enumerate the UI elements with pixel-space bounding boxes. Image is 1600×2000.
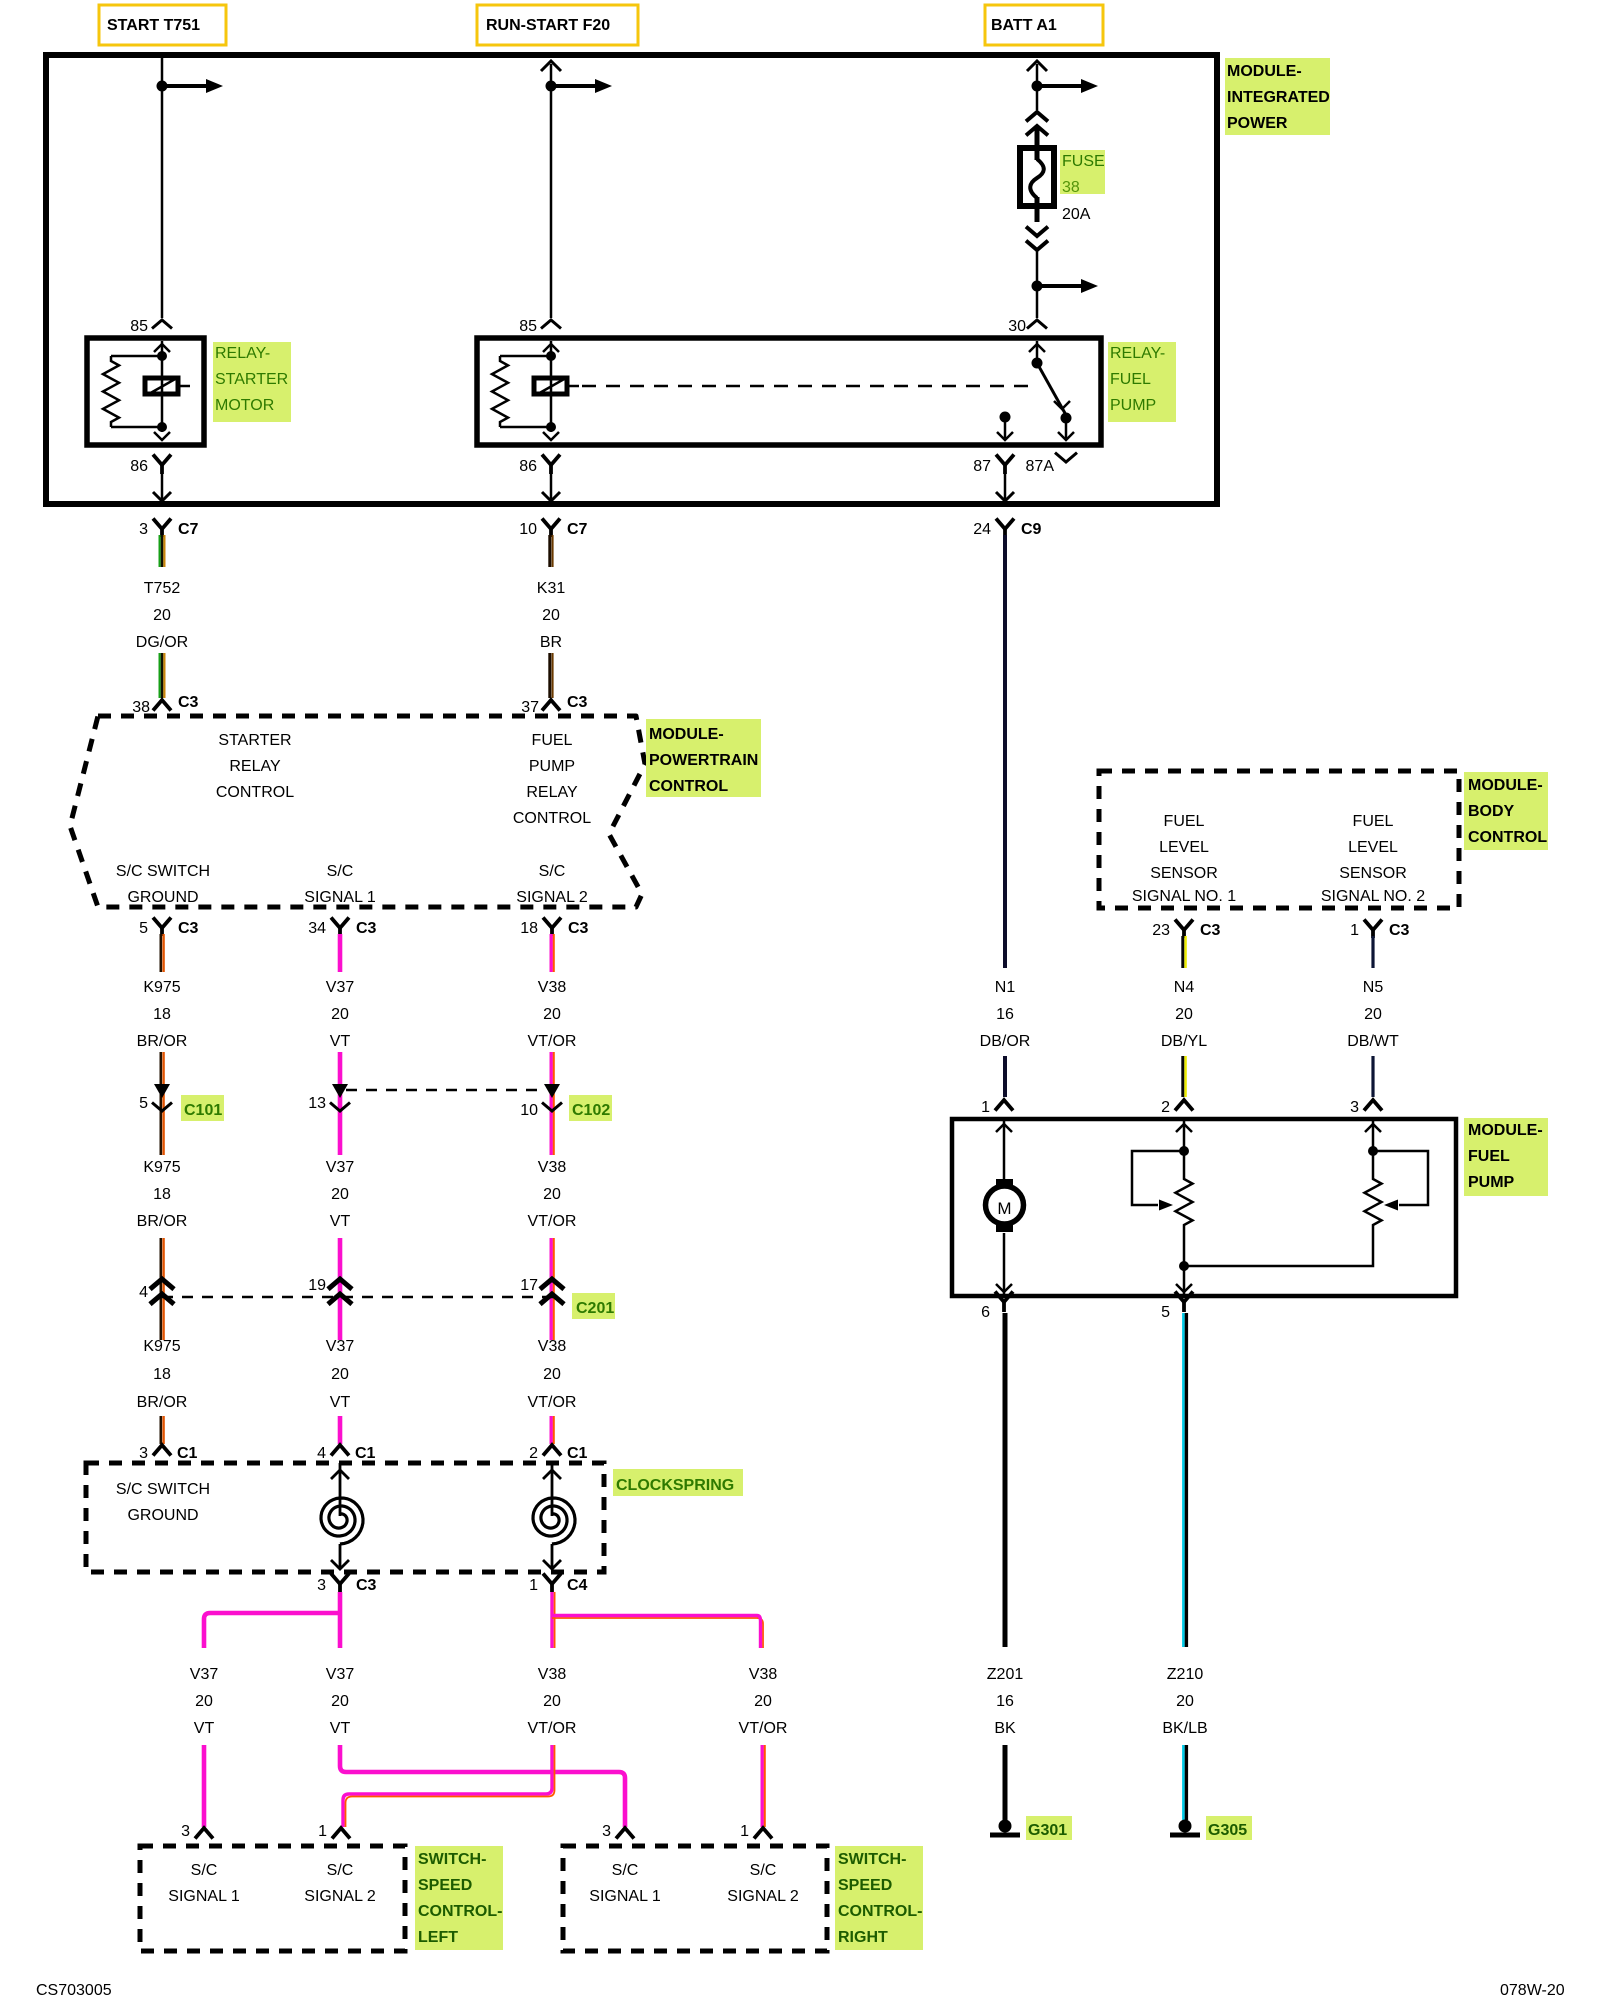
inline connector pin 13 with dashed link	[346, 1089, 546, 1092]
svg-text:13: 13	[308, 1095, 326, 1112]
svg-text:MODULE-: MODULE-	[649, 726, 724, 743]
wire N1 long segment	[1003, 535, 1007, 968]
svg-text:C7: C7	[567, 521, 588, 538]
svg-text:C3: C3	[1200, 922, 1221, 939]
svg-text:87A: 87A	[1026, 458, 1055, 475]
svg-text:SPEED: SPEED	[418, 1877, 472, 1894]
svg-text:V37: V37	[326, 1338, 355, 1355]
svg-text:18: 18	[153, 1186, 171, 1203]
pin 3 fuel pump module	[1364, 1100, 1382, 1111]
svg-text:3: 3	[317, 1577, 326, 1594]
svg-text:10: 10	[519, 521, 537, 538]
svg-text:10: 10	[520, 1102, 538, 1119]
svg-text:FUEL: FUEL	[532, 732, 573, 749]
wire V37 segment 4	[338, 1416, 343, 1444]
svg-text:85: 85	[130, 318, 148, 335]
clockspring coil 1	[339, 1463, 342, 1516]
svg-text:38: 38	[132, 699, 150, 716]
svg-text:BR/OR: BR/OR	[137, 1213, 188, 1230]
svg-text:V38: V38	[538, 1338, 567, 1355]
label MODULE-POWERTRAIN CONTROL	[646, 719, 761, 797]
connector C3 pin 1 body	[1364, 920, 1382, 931]
svg-text:3: 3	[139, 521, 148, 538]
svg-text:INTEGRATED: INTEGRATED	[1227, 89, 1330, 106]
svg-text:S/C: S/C	[612, 1862, 639, 1879]
svg-text:SWITCH-: SWITCH-	[418, 1851, 486, 1868]
wire V38 segment 3	[550, 1238, 553, 1340]
label CLOCKSPRING	[613, 1469, 743, 1496]
svg-text:SIGNAL 1: SIGNAL 1	[589, 1888, 661, 1905]
svg-text:START T751: START T751	[107, 17, 200, 34]
motor M1 return wire	[1003, 1233, 1006, 1294]
svg-text:N5: N5	[1363, 979, 1384, 996]
svg-text:POWERTRAIN: POWERTRAIN	[649, 752, 758, 769]
svg-text:K31: K31	[537, 580, 566, 597]
relay K2 contact 87A	[1061, 413, 1072, 424]
svg-text:C3: C3	[178, 920, 199, 937]
relay K2 actuation dashed link	[582, 385, 1028, 388]
node BATT A1 feed box	[985, 5, 1103, 45]
svg-text:SIGNAL 2: SIGNAL 2	[304, 1888, 376, 1905]
wire Z201 upper segment	[1003, 1313, 1008, 1647]
svg-text:FUEL: FUEL	[1468, 1148, 1510, 1165]
svg-text:S/C: S/C	[750, 1862, 777, 1879]
wire T752 lower segment	[159, 653, 161, 698]
wire N4 upper segment	[1181, 936, 1184, 968]
wire K975 segment 4	[160, 1416, 163, 1444]
pin 1 fuel pump module	[995, 1100, 1013, 1111]
sender R2 feed wire	[1372, 1121, 1375, 1176]
svg-text:34: 34	[308, 920, 326, 937]
svg-text:20: 20	[1176, 1693, 1194, 1710]
svg-text:20: 20	[1175, 1006, 1193, 1023]
svg-text:V37: V37	[326, 1159, 355, 1176]
svg-text:GROUND: GROUND	[127, 889, 198, 906]
wire V38 to right switch pin 1	[761, 1745, 764, 1827]
sender R1 resistor	[1176, 1176, 1193, 1228]
svg-text:C4: C4	[567, 1577, 588, 1594]
module CLOCKSPRING box	[86, 1463, 604, 1572]
wire V37 segment 2	[338, 1052, 343, 1155]
svg-text:N1: N1	[995, 979, 1016, 996]
arrow tap fused batt	[1037, 284, 1081, 288]
relay K1 coil wire	[161, 341, 164, 432]
svg-text:RIGHT: RIGHT	[838, 1929, 888, 1946]
svg-text:SPEED: SPEED	[838, 1877, 892, 1894]
svg-text:G305: G305	[1208, 1822, 1247, 1839]
svg-text:18: 18	[153, 1366, 171, 1383]
svg-text:VT: VT	[330, 1033, 351, 1050]
svg-text:VT/OR: VT/OR	[528, 1394, 577, 1411]
svg-text:20: 20	[542, 607, 560, 624]
sender R1 wiper bracket	[1132, 1151, 1184, 1205]
svg-text:SWITCH-: SWITCH-	[838, 1851, 906, 1868]
svg-text:V38: V38	[538, 1159, 567, 1176]
pin 2 fuel pump module	[1175, 1100, 1193, 1111]
module S2 SWITCH-SPEED CONTROL-RIGHT box	[563, 1846, 827, 1951]
svg-text:BATT A1: BATT A1	[991, 17, 1057, 34]
svg-text:FUEL: FUEL	[1164, 813, 1205, 830]
relay K2 contact 87	[1000, 412, 1011, 423]
svg-text:C1: C1	[355, 1445, 376, 1462]
svg-text:POWER: POWER	[1227, 115, 1288, 132]
inline connector C101 pin 5	[154, 1084, 170, 1098]
motor M1 symbol	[996, 1179, 1013, 1188]
svg-text:DB/OR: DB/OR	[980, 1033, 1031, 1050]
wire V37 segment 1	[338, 934, 343, 972]
module U1 MODULE-INTEGRATED POWER box	[46, 55, 1217, 504]
svg-text:3: 3	[602, 1823, 611, 1840]
svg-text:DB/WT: DB/WT	[1347, 1033, 1399, 1050]
sender R2 wiper bracket	[1373, 1151, 1428, 1205]
svg-text:20: 20	[153, 607, 171, 624]
svg-text:20: 20	[331, 1006, 349, 1023]
wire K31 lower segment	[548, 653, 551, 698]
svg-text:C1: C1	[567, 1445, 588, 1462]
svg-text:VT/OR: VT/OR	[528, 1213, 577, 1230]
svg-text:CLOCKSPRING: CLOCKSPRING	[616, 1477, 734, 1494]
connector C3 pin 5	[153, 918, 171, 929]
arrow tap run-start feed	[551, 84, 595, 88]
svg-text:CONTROL-: CONTROL-	[838, 1903, 922, 1920]
svg-text:2: 2	[1161, 1099, 1170, 1116]
label SWITCH-SPEED CONTROL-RIGHT	[835, 1846, 923, 1950]
pin 86 relay starter	[153, 455, 171, 466]
svg-text:RELAY-: RELAY-	[215, 345, 270, 362]
svg-text:PUMP: PUMP	[1468, 1174, 1515, 1191]
label RELAY-STARTER MOTOR	[213, 342, 291, 422]
svg-text:20: 20	[543, 1366, 561, 1383]
svg-text:BR/OR: BR/OR	[137, 1033, 188, 1050]
svg-text:3: 3	[181, 1823, 190, 1840]
svg-text:4: 4	[139, 1284, 148, 1301]
sender R1 return	[1183, 1228, 1186, 1294]
connector C1 pin 2	[543, 1445, 561, 1456]
pin 3 left switch	[195, 1828, 213, 1839]
svg-text:C3: C3	[1389, 922, 1410, 939]
relay K2 coil resistor	[500, 355, 551, 358]
junction dot start feed	[157, 81, 168, 92]
svg-text:5: 5	[139, 920, 148, 937]
fuse F38	[1020, 148, 1054, 206]
wire N4 lower segment	[1181, 1056, 1184, 1097]
svg-text:MODULE-: MODULE-	[1468, 1122, 1543, 1139]
svg-text:SIGNAL NO. 2: SIGNAL NO. 2	[1321, 888, 1425, 905]
svg-text:PUMP: PUMP	[1110, 397, 1156, 414]
svg-text:C3: C3	[568, 920, 589, 937]
svg-text:87: 87	[973, 458, 991, 475]
svg-text:VT/OR: VT/OR	[528, 1033, 577, 1050]
svg-text:SIGNAL 1: SIGNAL 1	[168, 1888, 240, 1905]
connector C7 pin 10	[542, 519, 560, 530]
svg-text:Z210: Z210	[1167, 1666, 1204, 1683]
junction dot batt feed	[1032, 81, 1043, 92]
label G301	[1026, 1816, 1072, 1840]
wire K975 segment 2	[160, 1052, 163, 1155]
wire V38 segment 2	[550, 1052, 553, 1155]
svg-text:SENSOR: SENSOR	[1339, 865, 1407, 882]
svg-text:20A: 20A	[1062, 206, 1091, 223]
svg-text:1: 1	[981, 1099, 990, 1116]
svg-text:20: 20	[331, 1366, 349, 1383]
pin 85 relay fuel pump	[541, 320, 561, 329]
inline connector chevrons below fuse	[1026, 227, 1048, 236]
svg-text:3: 3	[139, 1445, 148, 1462]
connector C9 pin 24	[996, 519, 1014, 530]
svg-text:20: 20	[543, 1186, 561, 1203]
svg-text:BK: BK	[994, 1720, 1016, 1737]
wire V38 segment 1	[550, 934, 553, 972]
svg-text:S/C: S/C	[327, 1862, 354, 1879]
svg-text:VT: VT	[330, 1720, 351, 1737]
svg-text:C201: C201	[576, 1300, 614, 1317]
svg-text:S/C: S/C	[191, 1862, 218, 1879]
relay K2 switch blade	[1037, 363, 1066, 415]
inline connector C201 pin 17 with dashed link	[162, 1296, 560, 1299]
svg-text:CONTROL: CONTROL	[216, 784, 294, 801]
svg-text:V37: V37	[190, 1666, 219, 1683]
svg-text:2: 2	[529, 1445, 538, 1462]
wire pin 86 to module edge	[161, 470, 164, 499]
wire N5 lower segment	[1371, 1056, 1374, 1097]
svg-text:FUSE: FUSE	[1062, 153, 1105, 170]
svg-text:STARTER: STARTER	[218, 732, 291, 749]
svg-text:LEVEL: LEVEL	[1159, 839, 1209, 856]
svg-text:RELAY: RELAY	[229, 758, 281, 775]
svg-text:20: 20	[331, 1186, 349, 1203]
label SWITCH-SPEED CONTROL-LEFT	[415, 1846, 503, 1950]
pin 3 right switch	[616, 1828, 634, 1839]
pin 1 left switch	[332, 1828, 350, 1839]
svg-text:K975: K975	[143, 1159, 180, 1176]
svg-text:VT: VT	[330, 1213, 351, 1230]
svg-text:6: 6	[981, 1304, 990, 1321]
module U2 MODULE-POWERTRAIN CONTROL outline	[70, 716, 645, 907]
svg-text:CONTROL: CONTROL	[513, 810, 591, 827]
arrow tap batt feed	[1037, 84, 1081, 88]
motor M1 feed wire	[1003, 1121, 1006, 1179]
svg-text:18: 18	[153, 1006, 171, 1023]
wire V38 segment 4	[550, 1416, 553, 1444]
svg-text:1: 1	[529, 1577, 538, 1594]
svg-text:19: 19	[308, 1277, 326, 1294]
wire K31 upper segment	[548, 535, 551, 567]
junction dot fused batt	[1032, 281, 1043, 292]
svg-text:VT/OR: VT/OR	[528, 1720, 577, 1737]
junction dot run-start feed	[546, 81, 557, 92]
pin 5 fuel pump module	[1175, 1292, 1193, 1303]
svg-text:18: 18	[520, 920, 538, 937]
module U4 MODULE-FUEL PUMP box	[952, 1119, 1456, 1296]
svg-text:G301: G301	[1028, 1822, 1067, 1839]
pin 6 fuel pump module	[995, 1292, 1013, 1303]
svg-text:RELAY-: RELAY-	[1110, 345, 1165, 362]
relay K1 RELAY-STARTER MOTOR box	[87, 338, 204, 445]
svg-text:20: 20	[754, 1693, 772, 1710]
svg-text:S/C SWITCH: S/C SWITCH	[116, 1481, 210, 1498]
module S1 SWITCH-SPEED CONTROL-LEFT box	[140, 1846, 405, 1951]
wire Z201 lower segment	[1003, 1745, 1008, 1820]
connector C3 pin 38	[153, 700, 171, 711]
svg-text:C101: C101	[184, 1102, 222, 1119]
inline connector C201 pin 4	[150, 1279, 174, 1289]
relay K1 coil symbol	[145, 378, 178, 394]
sender R1 feed wire	[1183, 1121, 1186, 1176]
node RUN-START F20 feed box	[477, 5, 638, 45]
svg-text:S/C SWITCH: S/C SWITCH	[116, 863, 210, 880]
svg-text:MODULE-: MODULE-	[1468, 777, 1543, 794]
svg-text:BR: BR	[540, 634, 562, 651]
svg-text:4: 4	[317, 1445, 326, 1462]
ground G305 symbol	[1179, 1820, 1192, 1833]
svg-text:37: 37	[521, 699, 539, 716]
svg-text:STARTER: STARTER	[215, 371, 288, 388]
label RELAY-FUEL PUMP	[1108, 342, 1176, 422]
wire K975 segment 3	[160, 1238, 163, 1340]
svg-text:C1: C1	[177, 1445, 198, 1462]
svg-text:23: 23	[1152, 922, 1170, 939]
svg-text:V37: V37	[326, 979, 355, 996]
svg-text:C7: C7	[178, 521, 199, 538]
svg-text:3: 3	[1350, 1099, 1359, 1116]
svg-text:20: 20	[195, 1693, 213, 1710]
pin 1 right switch	[754, 1828, 772, 1839]
wire BATT A1 feed	[1036, 64, 1039, 110]
svg-text:1: 1	[318, 1823, 327, 1840]
connector C3 pin 3 below clockspring	[331, 1574, 349, 1585]
node START T751 feed box	[99, 5, 226, 45]
wire N1 lower segment	[1003, 1056, 1007, 1097]
label G305	[1206, 1816, 1252, 1840]
svg-text:30: 30	[1008, 318, 1026, 335]
svg-text:5: 5	[1161, 1304, 1170, 1321]
svg-text:C3: C3	[178, 694, 199, 711]
svg-text:SIGNAL 1: SIGNAL 1	[304, 889, 376, 906]
label FUSE 38 20A	[1060, 150, 1105, 194]
svg-text:V38: V38	[538, 979, 567, 996]
wire pin 86 relay2 to module edge	[550, 470, 553, 499]
svg-text:16: 16	[996, 1693, 1014, 1710]
svg-text:BK/LB: BK/LB	[1162, 1720, 1207, 1737]
svg-text:1: 1	[740, 1823, 749, 1840]
svg-text:PUMP: PUMP	[529, 758, 575, 775]
svg-text:C9: C9	[1021, 521, 1042, 538]
label MODULE-BODY CONTROL	[1464, 772, 1548, 850]
pin 85 relay starter	[152, 320, 172, 329]
svg-text:20: 20	[543, 1006, 561, 1023]
wire V37 segment 3	[338, 1238, 343, 1340]
svg-text:VT: VT	[330, 1394, 351, 1411]
svg-text:DG/OR: DG/OR	[136, 634, 188, 651]
svg-text:K975: K975	[143, 979, 180, 996]
svg-text:38: 38	[1062, 179, 1080, 196]
pin 87 fork	[996, 455, 1014, 466]
svg-text:VT: VT	[194, 1720, 215, 1737]
svg-text:C3: C3	[356, 1577, 377, 1594]
svg-text:20: 20	[1364, 1006, 1382, 1023]
svg-text:078W-20: 078W-20	[1500, 1982, 1565, 1999]
wire fuse to relay pin 30	[1036, 250, 1039, 318]
label MODULE-INTEGRATED POWER	[1225, 58, 1330, 135]
wire START T751 feed	[161, 58, 164, 318]
svg-text:FUEL: FUEL	[1353, 813, 1394, 830]
svg-text:LEVEL: LEVEL	[1348, 839, 1398, 856]
wire T752 upper segment	[159, 535, 161, 567]
svg-text:Z201: Z201	[987, 1666, 1024, 1683]
svg-text:C3: C3	[356, 920, 377, 937]
svg-text:MOTOR: MOTOR	[215, 397, 274, 414]
svg-text:BODY: BODY	[1468, 803, 1515, 820]
connector C1 pin 3	[153, 1445, 171, 1456]
sender R2 return link	[1184, 1228, 1373, 1266]
connector C3 pin 37	[542, 700, 560, 711]
svg-text:CONTROL: CONTROL	[1468, 829, 1547, 846]
svg-text:SIGNAL 2: SIGNAL 2	[727, 1888, 799, 1905]
wire V38 crossover to left switch pin 1	[343, 1745, 552, 1827]
svg-text:V38: V38	[749, 1666, 778, 1683]
relay K2 common wire	[1036, 341, 1039, 363]
svg-text:GROUND: GROUND	[127, 1507, 198, 1524]
wire V37 crossover to right switch pin 3	[340, 1745, 625, 1827]
svg-text:86: 86	[130, 458, 148, 475]
relay K2 coil symbol	[534, 378, 567, 394]
wire V38 branch to right	[550, 1592, 553, 1648]
wire V37 to left switch pin 3	[202, 1745, 207, 1827]
inline connector C102 pin 10	[544, 1084, 560, 1098]
svg-text:20: 20	[331, 1693, 349, 1710]
svg-text:CONTROL: CONTROL	[649, 778, 728, 795]
relay K1 coil resistor	[111, 355, 162, 358]
inline connector C201 pin 19	[328, 1279, 352, 1289]
svg-text:C102: C102	[572, 1102, 610, 1119]
arrow tap start feed	[162, 84, 206, 88]
svg-text:VT/OR: VT/OR	[739, 1720, 788, 1737]
connector C3 pin 34	[331, 918, 349, 929]
connector C3 pin 18	[543, 918, 561, 929]
inline connector chevrons above fuse	[1026, 112, 1048, 121]
wire N5 upper segment	[1371, 936, 1374, 968]
connector C4 pin 1 below clockspring	[543, 1574, 561, 1585]
ground G301 symbol	[999, 1820, 1012, 1833]
wire RUN-START F20 feed	[550, 64, 553, 318]
svg-text:CS703005: CS703005	[36, 1982, 112, 1999]
sender R2 resistor	[1365, 1176, 1382, 1228]
svg-text:16: 16	[996, 1006, 1014, 1023]
pin 87A chevron	[1055, 453, 1077, 462]
svg-text:N4: N4	[1174, 979, 1195, 996]
wire V37 branch to left	[338, 1592, 343, 1648]
svg-text:24: 24	[973, 521, 991, 538]
svg-text:LEFT: LEFT	[418, 1929, 458, 1946]
clockspring coil 2	[551, 1463, 554, 1516]
connector C7 pin 3	[153, 519, 171, 530]
svg-text:5: 5	[139, 1095, 148, 1112]
svg-text:C3: C3	[567, 694, 588, 711]
label MODULE-FUEL PUMP	[1464, 1118, 1548, 1196]
pin 86 relay fuel pump fork	[542, 455, 560, 466]
svg-text:DB/YL: DB/YL	[1161, 1033, 1207, 1050]
relay K2 coil wire	[550, 341, 553, 432]
svg-text:20: 20	[543, 1693, 561, 1710]
wire Z210 upper segment	[1182, 1313, 1185, 1647]
svg-text:1: 1	[1350, 922, 1359, 939]
svg-text:SENSOR: SENSOR	[1150, 865, 1218, 882]
svg-text:V37: V37	[326, 1666, 355, 1683]
svg-text:MODULE-: MODULE-	[1227, 63, 1302, 80]
svg-text:T752: T752	[144, 580, 181, 597]
svg-text:FUEL: FUEL	[1110, 371, 1151, 388]
svg-text:85: 85	[519, 318, 537, 335]
